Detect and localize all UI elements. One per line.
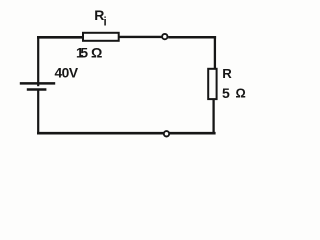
svg-text:5: 5: [80, 45, 88, 60]
terminal node (bottom, open circle): [164, 131, 169, 136]
label 5 ohm: [222, 85, 246, 101]
label 15 ohm: [76, 45, 102, 61]
resistor Ri (15 ohm): [83, 33, 119, 41]
battery B1 40V: [20, 83, 55, 89]
terminal node (top, open circle): [162, 34, 167, 39]
svg-text:i: i: [104, 17, 107, 29]
wire left vertical (top, battery positive lead): [37, 36, 39, 86]
wire bottom horizontal segment: [37, 132, 216, 135]
wire top middle segment (Ri to top terminal): [118, 36, 162, 38]
label Ri: [94, 7, 106, 29]
svg-text:40V: 40V: [55, 65, 79, 80]
svg-text:Ω: Ω: [91, 45, 102, 61]
resistor R (5 ohm): [208, 69, 216, 99]
wire top-left horizontal segment: [37, 36, 83, 39]
wire left vertical (bottom, battery negative lead): [37, 90, 39, 135]
wire right vertical (bottom lead of R): [212, 99, 214, 134]
wire right vertical (top lead of R): [214, 36, 216, 70]
wire top-right segment (top terminal to corner): [168, 36, 216, 39]
svg-text:5: 5: [222, 85, 230, 101]
svg-text:Ω: Ω: [236, 86, 246, 101]
svg-text:R: R: [222, 66, 232, 81]
